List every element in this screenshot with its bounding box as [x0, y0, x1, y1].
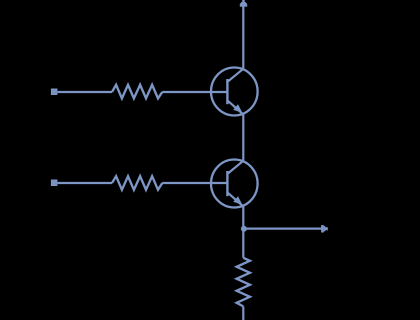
Q2 emitter arrow — [233, 196, 242, 205]
transistor Q1 (top NPN) — [211, 68, 258, 116]
wire: Q2 emitter down to junction and resistor R3 — [242, 206, 244, 257]
Q2 emitter lead — [228, 193, 243, 207]
supply arrow terminal (points up at top edge) — [240, 0, 247, 7]
resistor R3 (emitter load resistor, vertical) — [237, 258, 250, 307]
input terminal A (square pad, top-left) — [51, 89, 57, 95]
resistor R2 (bottom input series resistor) — [112, 176, 162, 190]
Q1 emitter arrow — [233, 104, 242, 113]
wire: terminal A to resistor R1 — [58, 91, 113, 93]
Q1 collector lead — [228, 69, 243, 82]
Q2 collector lead — [228, 161, 243, 174]
Q1 body circle — [211, 68, 258, 116]
Q2 body circle — [211, 160, 258, 208]
junction node (output tap dot) — [241, 226, 247, 232]
wire: resistor R3 to bottom edge — [242, 306, 244, 320]
wire: Q1 collector up to supply arrow — [242, 7, 244, 69]
wire: resistor R2 to base of Q2 — [162, 182, 226, 184]
transistor Q2 (bottom NPN) — [211, 160, 258, 208]
wire: Q1 emitter down to Q2 collector — [242, 114, 244, 160]
wire: resistor R1 to base of Q1 — [162, 91, 226, 93]
wire: terminal B to resistor R2 — [58, 182, 113, 184]
Q2 base bar — [226, 171, 228, 196]
output arrow terminal (points right) — [321, 225, 328, 232]
Q1 base bar — [226, 79, 228, 104]
wire: junction to output arrow — [246, 228, 322, 230]
Q1 emitter lead — [228, 101, 243, 115]
input terminal B (square pad, bottom-left) — [51, 180, 57, 186]
resistor R1 (top input series resistor) — [112, 85, 162, 99]
